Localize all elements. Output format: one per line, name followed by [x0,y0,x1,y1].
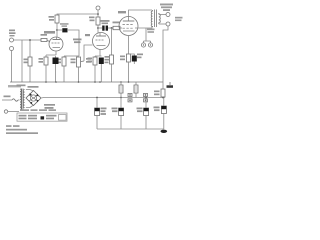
wire B+ rail preamp [57,14,98,15]
capacitor C2 coupling (black) [62,28,67,32]
label INPUT [9,30,16,37]
wire C4 to grid resistor [108,27,113,29]
label PT [17,85,26,87]
wire plate V1A up [56,23,58,37]
label speaker jack [160,4,173,12]
pentode 6V6 [119,17,138,36]
wire jack sleeve to ground [163,26,168,82]
wire cathode V1A bottoms [46,56,56,82]
wire plate V1B [97,25,99,33]
capacitor cathode bypass V1A (black) [53,58,59,65]
label .022 [100,20,110,24]
label .022 [60,23,69,27]
wire cathode 6V6 [128,36,130,55]
label tone [57,59,61,64]
capacitor tone [62,57,66,66]
resistor 220K grid leak [110,55,114,64]
label cathode R2 [88,58,93,63]
label 6V6 [118,11,126,13]
label V1A [44,31,55,34]
label mains text row [20,109,56,111]
label cathode R [120,56,125,61]
terminal B+ plug [97,11,99,14]
wire negative bus [97,128,164,130]
transformer OT core [155,10,157,28]
resistor 68K grid stopper [41,39,47,42]
resistor 1M grid leak [28,57,32,66]
label C-B [112,108,118,113]
caption line 2 [6,129,27,131]
node bus junctions [45,81,129,83]
bridge rectifier [26,91,41,106]
label volume [71,59,76,64]
wire into 6V6 grid [120,27,122,29]
connector plug pair [144,40,151,43]
wire plate R2 top [97,14,99,17]
wire jack1 to grid resistor [14,39,42,41]
AC plug terminal [4,110,7,113]
input jack J2 [10,47,14,51]
label vol title [73,39,82,44]
wire AC line fuse lead [2,99,12,101]
wire tone top link [64,55,79,57]
triode V1A [49,37,63,51]
wire wiper to grid V1B [84,45,93,61]
label below line left [44,104,55,109]
label right of wiper [86,58,92,63]
wire plate2 to C4 [98,27,102,29]
potentiometer VOLUME 1M [77,57,81,67]
wire cathode V1B bottoms [95,64,101,82]
label under bus left [8,85,21,87]
label 100K [49,16,55,21]
wire secondary top to jack [159,14,166,16]
wire cap to corner [68,30,79,56]
input jack J1 [10,38,14,42]
label bridge [28,86,39,88]
label cathode R1 [39,58,44,63]
wire screen/B+ y28 [135,26,152,40]
node junctions on B+ line [96,97,164,99]
label 1M [24,59,28,64]
resistor grid stopper 6V6 [113,26,120,29]
titleblock box [17,113,67,121]
capacitor cathode bypass V1B (black) [99,58,104,65]
resistor cathode V1A [44,57,48,65]
titleblock inner box [59,115,67,121]
wire vertical x30 lower [29,66,31,82]
titleblock content [19,115,38,119]
transformer OT secondary [159,13,161,24]
label 100K [89,17,95,22]
wire secondary to bridge bottom [26,105,34,108]
titleblock logo [41,116,45,119]
wire vertical x30 upper [29,40,31,57]
speaker jack sleeve [166,22,170,26]
resistor series dropper 1 [128,93,132,102]
wire jack2 to ground bus [11,51,13,83]
wire grid stopper to tube [47,40,50,42]
chassis ground PSU [161,130,168,133]
wire plate node to cap [57,29,62,31]
label under plugs [137,54,143,59]
connector riser 1 [120,82,122,108]
wire secondary bottom to jack [159,23,166,25]
wire grid leak to bus [111,64,113,82]
wire AC lower lead [8,111,19,113]
wire tone cap stub [63,56,65,82]
wire cathode bottoms [129,54,135,82]
capacitor cathode bypass 6V6 (black) [132,56,137,62]
wiper arrow [81,60,84,63]
label C-C [137,108,143,113]
wire fuse to PT [18,99,20,101]
resistor bleeder [162,82,164,89]
speaker jack tip [166,13,170,17]
caption line 3 [6,132,38,134]
resistor cathode V1B [93,57,97,65]
label fuse [4,96,11,98]
label grid stopper [113,22,121,24]
node plate2 [97,27,99,29]
capacitor filter C-C [145,98,147,109]
ground bus [10,81,163,83]
label C-A [101,108,107,115]
label bleeder [154,91,160,96]
cathode V1B wire [95,50,102,58]
resistor cathode 6V6 [127,54,131,62]
node B+ [97,13,99,15]
connector riser 2 [135,82,137,98]
wire pot bottom [78,67,80,82]
node input junction [29,39,31,41]
capacitor filter C-A [96,98,98,109]
titleblock content 2 [46,115,57,119]
power transformer PT primary [20,89,21,110]
label OT [147,29,155,33]
label 220K [105,56,110,63]
label left of V1B [85,34,90,36]
label 68K [41,34,48,36]
resistor 100K plate R [55,15,59,23]
triode V1B [93,33,110,50]
resistor series dropper 2 [144,93,148,102]
PT core [22,89,23,111]
capacitor C4 coupling (black) [102,26,108,31]
wire grid leak down [111,28,113,55]
PT secondary [23,90,24,108]
chassis ground symbol [169,82,171,85]
label C-D [154,107,160,112]
capacitor filter C-D [162,98,165,107]
wire B+ line [41,97,165,100]
resistor 100K plate R2 [96,17,100,25]
fuse [12,99,18,101]
node grid 6V6 [111,27,113,29]
node plate1 [56,29,58,31]
wire secondary to bridge top [26,90,34,92]
transformer OT primary [151,10,152,27]
caption line 1 [6,125,20,127]
wire plate 6V6 to OT [129,10,153,17]
label right of jacks [175,17,183,21]
capacitor filter C-B [120,107,122,109]
wire vertical x22 [21,40,23,82]
cathode V1A wire [46,51,56,57]
